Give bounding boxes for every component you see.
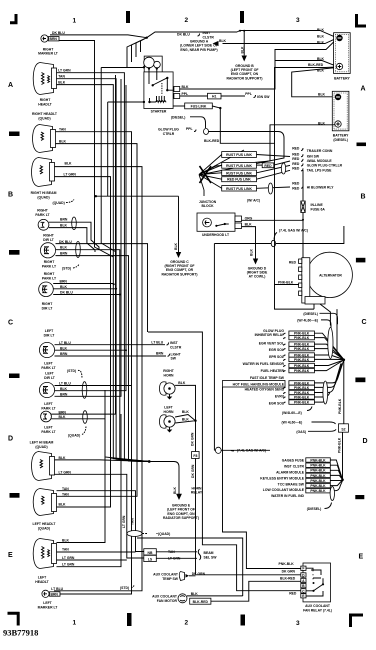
wire alternator out to fan bus (275, 285, 344, 360)
vertical labels lt grn tan (122, 515, 135, 528)
wire pnk-blk staircase (223, 387, 301, 569)
svg-text:(QUAD): (QUAD) (158, 532, 170, 536)
dest 4wal module (292, 157, 332, 163)
svg-text:(QUAD): (QUAD) (37, 196, 49, 200)
svg-text:RED: RED (289, 592, 297, 596)
svg-text:LT GRN: LT GRN (62, 556, 75, 560)
right horn (160, 369, 186, 399)
svg-text:RIGHT: RIGHT (37, 209, 48, 213)
left dir lt L4 (39, 329, 71, 370)
right headlt H1 (33, 63, 71, 107)
svg-text:BLK: BLK (245, 223, 253, 227)
wire temp dk grn to relay (196, 574, 301, 576)
underhood lt (197, 213, 253, 237)
light sw label (156, 352, 182, 361)
svg-text:RED: RED (292, 167, 300, 171)
svg-text:LT GRN: LT GRN (64, 172, 77, 176)
svg-text:PNK-BLK: PNK-BLK (278, 281, 294, 285)
svg-text:BRN: BRN (50, 37, 58, 41)
svg-text:PARK LT: PARK LT (42, 265, 57, 269)
wire right horn (175, 385, 195, 420)
svg-text:NB: NB (148, 551, 153, 555)
svg-text:RIGHT: RIGHT (163, 369, 174, 373)
svg-text:PPL: PPL (245, 92, 252, 96)
egr vent sol row (259, 342, 344, 360)
svg-text:PNK-BLK: PNK-BLK (310, 489, 326, 493)
svg-text:RED: RED (292, 146, 300, 150)
svg-text:INHIBITOR RELAY: INHIBITOR RELAY (255, 333, 285, 337)
svg-text:BLK: BLK (174, 242, 178, 250)
svg-text:LEFT: LEFT (43, 601, 52, 605)
wire BRN left marker (60, 459, 132, 594)
svg-text:HORN: HORN (164, 374, 175, 378)
svg-text:DIR LT: DIR LT (44, 376, 56, 380)
svg-text:RUST FUS LINK: RUST FUS LINK (226, 153, 252, 157)
svg-text:FUS LINK: FUS LINK (191, 105, 207, 109)
left hi beam (quad) H4 (30, 440, 72, 480)
svg-text:GLOW PLUG CTRLLR: GLOW PLUG CTRLLR (307, 164, 343, 168)
svg-text:(DIESEL): (DIESEL) (333, 138, 348, 142)
wire TAN headlt quad (56, 132, 150, 462)
fus link starter (173, 103, 221, 109)
left horn (160, 406, 190, 433)
wire LT BLU left park (55, 385, 132, 387)
svg-text:PNK-BLK: PNK-BLK (294, 353, 310, 357)
svg-text:RED: RED (292, 153, 300, 157)
svg-text:PNK-BLK: PNK-BLK (310, 474, 326, 478)
svg-text:RADIATOR SUPPORT): RADIATOR SUPPORT) (226, 76, 262, 80)
svg-text:BRN: BRN (60, 280, 68, 284)
svg-text:BLK: BLK (219, 39, 227, 43)
svg-text:WATER IN FUEL IND: WATER IN FUEL IND (271, 494, 304, 498)
svg-text:LEFT: LEFT (164, 406, 173, 410)
gages fuse row (282, 458, 343, 480)
fus link row 1 (222, 152, 290, 158)
tcc brake sw row (278, 478, 343, 486)
wire battery2 plus to junction block (216, 125, 335, 166)
relay wire labels (279, 562, 297, 595)
svg-text:BLK-RED: BLK-RED (280, 577, 296, 581)
svg-text:RIGHT: RIGHT (44, 260, 55, 264)
svg-text:TAN: TAN (131, 518, 135, 525)
svg-text:ALARM MODULE: ALARM MODULE (276, 471, 305, 475)
svg-text:DIR LT: DIR LT (42, 307, 54, 311)
svg-text:IGN SW: IGN SW (307, 154, 320, 158)
glow plug ctrlr label (158, 116, 284, 175)
svg-text:SEL SW: SEL SW (204, 556, 218, 560)
svg-text:(DIESEL): (DIESEL) (303, 312, 318, 316)
svg-text:PPL: PPL (186, 127, 193, 131)
connector oval fan bottom (323, 381, 328, 404)
svg-text:(QUAD): (QUAD) (53, 201, 65, 205)
7.4 gas label bottom (214, 447, 270, 453)
svg-text:BLK: BLK (318, 93, 326, 97)
svg-text:BLK: BLK (317, 34, 325, 38)
wire BLK left park lt (51, 419, 149, 462)
svg-text:PNK-BLK: PNK-BLK (294, 369, 310, 373)
node ground bus merge (148, 460, 151, 463)
wire LT GRN left headlt (57, 559, 127, 561)
svg-text:BLK: BLK (182, 410, 190, 414)
svg-text:D: D (8, 436, 13, 443)
wire ORG underhood (242, 219, 304, 221)
right park lt L1 (35, 209, 67, 243)
svg-text:MARKER LT: MARKER LT (38, 52, 59, 56)
low coolant module row (263, 480, 343, 492)
svg-text:LT GRN: LT GRN (62, 562, 75, 566)
wire BLK left park (55, 85, 127, 391)
svg-text:(W/4L60—E): (W/4L60—E) (282, 411, 302, 415)
wire BLK starter to battery (180, 39, 337, 89)
svg-text:PNK-BLK: PNK-BLK (294, 391, 310, 395)
beam sel connector NB (144, 549, 197, 555)
svg-text:HI BLOWER RLY: HI BLOWER RLY (307, 186, 335, 190)
svg-text:S2: S2 (341, 428, 345, 432)
svg-text:LOW COOLANT MODULE: LOW COOLANT MODULE (263, 488, 305, 492)
svg-text:RED: RED (292, 181, 300, 185)
svg-text:BLK-RED: BLK-RED (204, 139, 220, 143)
svg-text:KEYLESS ENTRY MODULE: KEYLESS ENTRY MODULE (260, 477, 304, 481)
wire left horn (175, 415, 195, 424)
svg-text:RUST FUS LINK: RUST FUS LINK (226, 164, 252, 168)
connector oval left dir (82, 382, 87, 399)
wire bus wedge (127, 38, 147, 68)
node horn junction (194, 420, 196, 422)
wire y538 (137, 538, 243, 596)
fuel heater row (261, 360, 344, 373)
svg-text:(STD): (STD) (62, 267, 71, 271)
right hi beam (quad) H3 (31, 158, 77, 205)
wire BLK headlt quad (56, 144, 150, 462)
svg-text:DK BLU: DK BLU (60, 291, 73, 295)
starter M1 (143, 56, 180, 113)
svg-text:PNK-BLK: PNK-BLK (310, 458, 326, 462)
ground E (163, 504, 199, 521)
glow plug inhibitor relay row (255, 329, 344, 360)
quad oval bottom (127, 531, 170, 537)
dest ign sw (292, 153, 320, 159)
egr sol row (269, 346, 344, 359)
svg-text:C: C (8, 320, 13, 327)
dest trailer conn (292, 146, 333, 153)
wire BLK dir lt (56, 250, 150, 462)
connector oval rows (281, 163, 285, 174)
svg-text:RADIATOR SUPPORT): RADIATOR SUPPORT) (163, 516, 199, 520)
svg-text:DK GRN: DK GRN (191, 464, 195, 478)
wire LT BLU to inst clstr (55, 344, 166, 346)
wire DK BLU marker to inst clstr (50, 35, 147, 38)
right headlt (quad) H2 (32, 112, 67, 153)
svg-text:FUSE 6A: FUSE 6A (311, 207, 326, 211)
svg-text:BLK: BLK (249, 248, 253, 256)
svg-text:(W/ A/C): (W/ A/C) (247, 198, 260, 202)
svg-text:BLK: BLK (317, 40, 325, 44)
svg-text:WATER IN FUEL SENSOR: WATER IN FUEL SENSOR (243, 362, 285, 366)
svg-text:INST CLSTR: INST CLSTR (284, 465, 305, 469)
wire to ground E (149, 462, 182, 501)
svg-text:LEFT: LEFT (44, 402, 53, 406)
ground C (161, 196, 197, 276)
inst clstr label (151, 341, 181, 350)
wire BLK hi beam (55, 167, 150, 462)
evrv row (275, 364, 341, 399)
wire BLK park lt (49, 228, 95, 252)
right park lt L3 (39, 272, 74, 311)
dest glow plug ctrllr (292, 162, 342, 168)
wire to alternator RED (289, 220, 303, 265)
svg-text:H1: H1 (212, 95, 216, 99)
svg-text:LS: LS (148, 557, 153, 561)
svg-text:HEADLT: HEADLT (35, 580, 49, 584)
w4l60 row (282, 398, 326, 415)
svg-text:BLK: BLK (62, 538, 70, 542)
svg-text:EGR SOL: EGR SOL (269, 348, 284, 352)
connector oval left park (83, 411, 88, 424)
svg-text:1: 1 (73, 18, 77, 25)
svg-text:RELAY: RELAY (191, 491, 203, 495)
wire BLK left headlt (57, 390, 106, 543)
svg-text:TAIL LPS FUSE: TAIL LPS FUSE (307, 168, 332, 172)
svg-text:BLK: BLK (191, 592, 199, 596)
svg-text:TRAILER CONN: TRAILER CONN (307, 149, 333, 153)
svg-text:DK BLU: DK BLU (177, 32, 190, 36)
svg-text:E: E (8, 552, 13, 559)
aux coolant fan relay K1 (301, 563, 332, 612)
svg-text:A: A (8, 82, 13, 89)
svg-text:BLK: BLK (59, 503, 67, 507)
svg-text:E: E (359, 554, 364, 561)
wire BRN left park lt (51, 75, 115, 414)
svg-text:FUEL HEATER: FUEL HEATER (261, 369, 285, 373)
epr sol row (269, 353, 344, 360)
svg-text:BLK: BLK (317, 69, 325, 73)
svg-text:BRN: BRN (60, 218, 68, 222)
svg-text:2: 2 (185, 17, 189, 24)
right marker lt E1 (38, 31, 65, 56)
svg-text:(QUAD): (QUAD) (35, 445, 47, 449)
svg-text:BLK-RED: BLK-RED (193, 600, 209, 604)
svg-text:93B77918: 93B77918 (3, 628, 38, 638)
wire BRN park lt3 (53, 283, 113, 285)
inst clstr row (284, 463, 342, 480)
wire BLK top to battery minus (237, 31, 337, 38)
svg-text:A: A (361, 86, 366, 93)
svg-text:PNK-BLK: PNK-BLK (294, 381, 310, 385)
svg-text:UNDERHOOD LT: UNDERHOOD LT (202, 233, 230, 237)
svg-text:FAST IDLE TEMP SW: FAST IDLE TEMP SW (250, 376, 285, 380)
svg-text:(7.4L GAS W/ A/C): (7.4L GAS W/ A/C) (279, 229, 308, 233)
svg-text:(GAS): (GAS) (296, 430, 306, 434)
svg-text:(W/ 4L60—E): (W/ 4L60—E) (282, 421, 303, 425)
svg-text:BLK: BLK (60, 223, 68, 227)
svg-text:BLK: BLK (241, 46, 245, 54)
svg-text:PNK-BLK: PNK-BLK (294, 347, 310, 351)
svg-text:(7.4L GAS W/ A/C): (7.4L GAS W/ A/C) (237, 449, 266, 453)
svg-text:PNK-BLK: PNK-BLK (338, 437, 342, 453)
wire BLK park lt3 (53, 288, 116, 290)
svg-text:PNK-BLK: PNK-BLK (294, 358, 310, 362)
svg-text:PNK-BLK: PNK-BLK (294, 364, 310, 368)
svg-text:IGN SW: IGN SW (257, 95, 270, 99)
wire TAN left headlt quad (57, 491, 145, 552)
junction block (199, 150, 244, 208)
svg-text:RIGHT HI BEAM: RIGHT HI BEAM (31, 191, 57, 195)
wire BLK underhood to ground D (242, 227, 268, 279)
wire LT GRN hi beam (55, 177, 150, 462)
svg-text:BRN: BRN (156, 352, 164, 356)
left park lt L6 (41, 410, 86, 437)
svg-text:PARK LT: PARK LT (41, 366, 56, 370)
splice S2 (339, 424, 349, 432)
node bus ground junction (95, 195, 97, 197)
aux coolant temp sw (153, 572, 206, 581)
svg-text:RUST FUS LINK: RUST FUS LINK (226, 187, 252, 191)
svg-text:F: F (302, 567, 304, 571)
svg-text:AUX COOLANT: AUX COOLANT (153, 572, 179, 576)
svg-text:DK BLU: DK BLU (52, 31, 65, 35)
wire DK BLU park lt3 (53, 294, 120, 296)
wire DK BLU dir lt (56, 244, 148, 332)
svg-text:(DIESEL): (DIESEL) (171, 116, 186, 120)
svg-text:DIR LT: DIR LT (44, 333, 56, 337)
svg-text:(QUAD): (QUAD) (38, 117, 50, 121)
wire s2 down (342, 432, 344, 479)
svg-text:4WAL MODULE: 4WAL MODULE (307, 159, 333, 163)
svg-text:PNK-BLK: PNK-BLK (294, 343, 310, 347)
left headlt (quad) H5 (33, 487, 70, 531)
svg-text:RED: RED (289, 261, 297, 265)
svg-text:B: B (361, 194, 366, 201)
wire BRN dir lt (56, 256, 150, 462)
wire TAN left headlt (57, 551, 136, 553)
svg-text:BLK: BLK (65, 161, 73, 165)
svg-text:RIGHT: RIGHT (42, 302, 53, 306)
wire BLK left dir (55, 349, 127, 351)
svg-text:(DIESEL): (DIESEL) (307, 507, 322, 511)
alternator G1 (299, 252, 353, 304)
connector oval park lt (72, 217, 77, 230)
wire BLK battery1 to battery2 (292, 68, 337, 97)
wire BRN left park (55, 79, 122, 396)
node top bus junction (146, 37, 148, 39)
svg-text:AUX COOLANT: AUX COOLANT (152, 594, 178, 598)
wire BLK battery plus upper (275, 61, 336, 66)
svg-text:BLOCK: BLOCK (201, 204, 214, 208)
svg-text:HORN: HORN (164, 410, 175, 414)
aux coolant fan motor (152, 592, 211, 604)
svg-text:RIGHT HEADLT: RIGHT HEADLT (32, 112, 58, 116)
diesel callout bottom (307, 503, 332, 512)
svg-text:(QUAD): (QUAD) (68, 433, 80, 437)
svg-text:PNK-BLK: PNK-BLK (294, 332, 310, 336)
water in fuel sensor row (243, 357, 344, 366)
wire TAN headlt (57, 79, 150, 462)
svg-text:BLK: BLK (60, 246, 68, 250)
svg-text:LEFT HI BEAM: LEFT HI BEAM (30, 440, 54, 444)
svg-text:PNK-BLK: PNK-BLK (279, 562, 295, 566)
svg-text:PNK-BLK: PNK-BLK (294, 401, 310, 405)
svg-text:2: 2 (185, 620, 189, 627)
svg-text:BLK: BLK (317, 57, 325, 61)
svg-text:CTRLR: CTRLR (163, 132, 175, 136)
svg-text:BLK: BLK (317, 28, 325, 32)
egr sol 2 row (269, 392, 330, 405)
svg-text:3: 3 (296, 620, 300, 627)
wire pnkblk feed relay (148, 332, 301, 591)
battery BLK labels (308, 28, 325, 73)
wire PPL starter to ign sw (180, 92, 271, 99)
svg-text:GAGES FUSE: GAGES FUSE (282, 459, 305, 463)
connector oval row5 (268, 183, 272, 194)
fast idle temp sw row (250, 360, 344, 380)
svg-text:BLK-RED: BLK-RED (308, 63, 324, 67)
svg-text:LT GRN: LT GRN (58, 69, 71, 73)
ground A (180, 39, 226, 52)
svg-text:LEFT: LEFT (45, 329, 54, 333)
svg-text:BRN: BRN (51, 593, 59, 597)
w4l60 callout 2 (282, 421, 336, 425)
svg-text:LEFT: LEFT (45, 372, 54, 376)
svg-text:RIGHT: RIGHT (43, 234, 54, 238)
svg-text:PNK-BLK: PNK-BLK (310, 479, 326, 483)
svg-text:FAN MOTOR: FAN MOTOR (157, 599, 178, 603)
svg-text:LT BLU: LT BLU (151, 341, 163, 345)
svg-text:3: 3 (296, 17, 300, 24)
svg-text:PARK LT: PARK LT (42, 276, 57, 280)
wire LT GRN headlt (57, 73, 150, 462)
svg-text:RED: RED (264, 164, 272, 168)
fus link row 2 (222, 161, 290, 168)
svg-text:PNK-BLK: PNK-BLK (310, 469, 326, 473)
beam sel connector LS (144, 555, 197, 561)
svg-text:RED FUS LINK: RED FUS LINK (227, 178, 251, 182)
diesel callout alt (297, 312, 337, 328)
svg-text:(QUAD): (QUAD) (38, 527, 50, 531)
wire BLK headlt (57, 85, 150, 462)
svg-text:RUST FUS LINK: RUST FUS LINK (226, 171, 252, 175)
svg-text:RED: RED (292, 162, 300, 166)
horn relay label (191, 486, 203, 494)
wire fan motor blkred (211, 581, 301, 601)
svg-text:FAN RELAY (7.4L): FAN RELAY (7.4L) (303, 608, 332, 612)
svg-text:EGR SOL: EGR SOL (269, 401, 284, 405)
wire DK BLU inst clstr top (147, 31, 237, 39)
wire BLK ground A to battery (223, 38, 337, 43)
wire LT BLU left marker (54, 460, 142, 591)
svg-text:BLK: BLK (58, 80, 66, 84)
node fan2 convergence (341, 478, 344, 481)
svg-text:PARK LT: PARK LT (35, 213, 50, 217)
svg-text:CLSTR: CLSTR (170, 345, 182, 349)
wire BRN marker (59, 41, 113, 258)
svg-text:LT GRN: LT GRN (59, 470, 72, 474)
in-line fuse (301, 170, 326, 220)
svg-text:PPL: PPL (182, 92, 189, 96)
svg-text:HEATED OXYGEN SENS: HEATED OXYGEN SENS (245, 387, 285, 391)
wire BRN park lt (49, 222, 99, 250)
svg-text:DK GRN: DK GRN (191, 432, 195, 446)
wire BLK-RED fus link to battery plus (204, 67, 337, 143)
wire temp sw (189, 575, 196, 577)
svg-text:BRN: BRN (60, 251, 68, 255)
svg-text:TAN: TAN (58, 75, 65, 79)
svg-text:SW: SW (171, 357, 177, 361)
svg-text:PNK-BLK: PNK-BLK (294, 386, 310, 390)
node org junction (302, 219, 304, 221)
wire DK GRN horn relay (191, 421, 200, 575)
battery B2 diesel (318, 91, 349, 142)
svg-text:ENG, NEAR P/B PUMP): ENG, NEAR P/B PUMP) (180, 48, 217, 52)
